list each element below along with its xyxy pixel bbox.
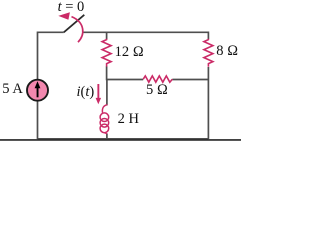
current arrow i(t) (magenta, pointing down) (96, 84, 102, 104)
label t = 0 (58, 0, 85, 16)
wire: middle horizontal wire left of 5-ohm (107, 79, 144, 81)
resistor R 12 ohm (vertical zigzag) (102, 39, 111, 67)
wire: middle branch from 12-ohm to middle node (106, 66, 108, 80)
current source I1 5A circle (27, 80, 48, 101)
wire: top right segment from switch to top-right corner (83, 31, 208, 33)
switch SW blade (64, 15, 85, 33)
wire: right vertical branch below 8-ohm down to bottom (207, 67, 209, 139)
inductor L 2H coil (100, 105, 109, 134)
switch action arc arrow (t=0 opening) (58, 12, 82, 42)
label 8 ohm (216, 43, 238, 60)
resistor R 8 ohm (vertical zigzag, right side) (204, 39, 213, 67)
label 5 ohm (146, 82, 168, 99)
wire: left vertical branch (with current source) (37, 32, 39, 140)
wire: middle horizontal wire right of 5-ohm (172, 79, 208, 81)
wire: top left segment from corner to switch hinge (38, 31, 64, 33)
label 12 ohm (115, 44, 144, 61)
current source arrow (points up) (35, 81, 41, 97)
wire: inductor branch lower stub (106, 134, 108, 140)
resistor R 5 ohm (horizontal zigzag) (143, 76, 172, 82)
label 5 A (2, 81, 23, 98)
label 2 H (118, 111, 139, 128)
wire: middle branch stub from top wire to 12-ohm (106, 32, 108, 39)
wire: bottom wire of circuit (38, 138, 209, 140)
wire: inductor branch upper stub (106, 80, 108, 106)
wire: right vertical branch top stub (207, 32, 209, 40)
figure bottom border rule (0, 139, 241, 141)
label i(t) (77, 84, 95, 101)
